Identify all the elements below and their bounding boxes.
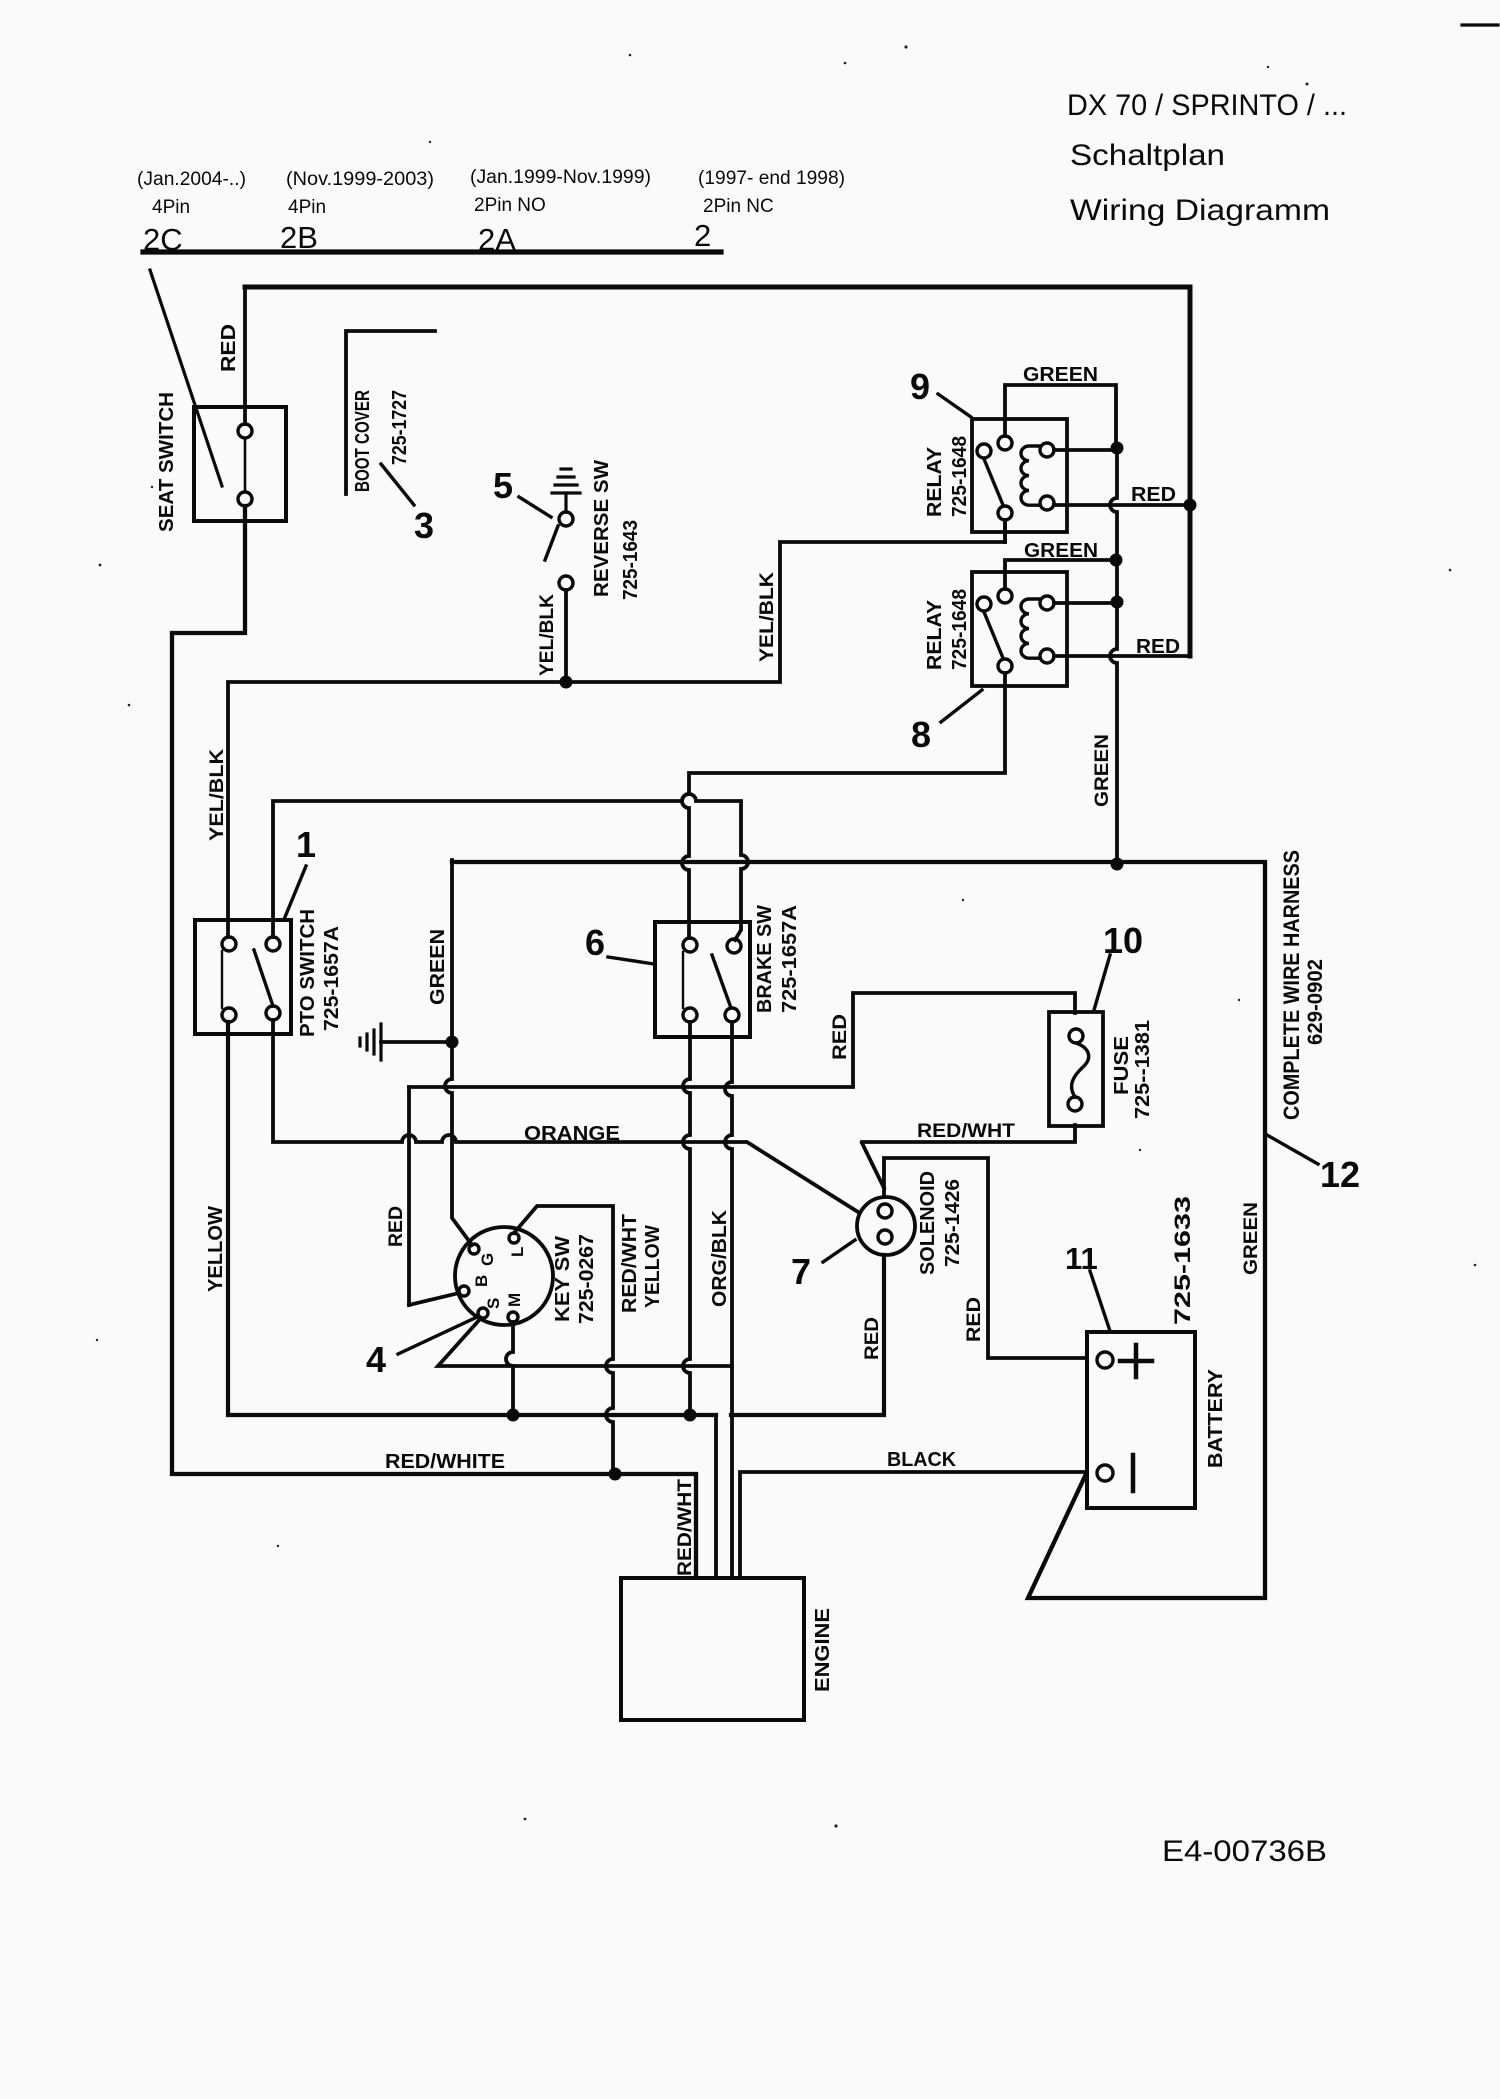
svg-text:B: B [472, 1275, 491, 1287]
svg-text:2A: 2A [478, 222, 516, 257]
svg-text:FUSE: FUSE [1111, 1036, 1133, 1095]
svg-text:725-1727: 725-1727 [389, 390, 411, 465]
svg-text:4: 4 [366, 1339, 386, 1380]
svg-text:GREEN: GREEN [1024, 540, 1098, 562]
svg-text:RED: RED [1136, 636, 1180, 658]
svg-text:Schaltplan: Schaltplan [1070, 139, 1225, 172]
svg-text:4Pin: 4Pin [288, 197, 326, 218]
svg-text:725-0267: 725-0267 [576, 1234, 598, 1324]
svg-text:DX 70 / SPRINTO / ...: DX 70 / SPRINTO / ... [1067, 89, 1347, 122]
svg-text:YEL/BLK: YEL/BLK [757, 572, 778, 662]
svg-text:SEAT SWITCH: SEAT SWITCH [156, 392, 178, 532]
svg-text:10: 10 [1103, 920, 1143, 961]
svg-text:GREEN: GREEN [1023, 364, 1098, 386]
svg-text:L: L [508, 1247, 527, 1257]
svg-text:725-1633: 725-1633 [1170, 1196, 1195, 1325]
svg-text:PTO SWITCH: PTO SWITCH [297, 909, 319, 1037]
svg-text:725-1657A: 725-1657A [779, 905, 801, 1013]
svg-text:8: 8 [911, 714, 931, 755]
svg-text:COMPLETE WIRE HARNESS: COMPLETE WIRE HARNESS [1279, 850, 1304, 1120]
svg-text:G: G [478, 1253, 497, 1266]
svg-text:ORANGE: ORANGE [524, 1123, 620, 1145]
svg-text:9: 9 [910, 366, 930, 407]
svg-text:E4-00736B: E4-00736B [1162, 1835, 1327, 1868]
svg-text:ORG/BLK: ORG/BLK [709, 1209, 731, 1307]
svg-text:RELAY: RELAY [924, 599, 946, 670]
svg-text:629-0902: 629-0902 [1304, 959, 1327, 1045]
svg-text:SOLENOID: SOLENOID [917, 1171, 939, 1275]
svg-text:(Jan.1999-Nov.1999): (Jan.1999-Nov.1999) [470, 167, 651, 188]
svg-text:BLACK: BLACK [887, 1449, 957, 1471]
svg-text:4Pin: 4Pin [152, 197, 190, 218]
svg-text:GREEN: GREEN [1241, 1202, 1262, 1275]
svg-text:2: 2 [694, 218, 711, 253]
svg-text:2B: 2B [280, 220, 318, 255]
svg-text:725-1648: 725-1648 [949, 436, 971, 517]
svg-text:BATTERY: BATTERY [1205, 1368, 1227, 1468]
svg-text:Wiring Diagramm: Wiring Diagramm [1070, 194, 1330, 227]
svg-text:(Nov.1999-2003): (Nov.1999-2003) [286, 169, 434, 190]
svg-text:RED: RED [862, 1317, 883, 1360]
svg-text:RED: RED [218, 324, 240, 372]
svg-text:2C: 2C [143, 222, 183, 257]
svg-text:YELLOW: YELLOW [205, 1206, 227, 1292]
svg-text:(Jan.2004-..): (Jan.2004-..) [137, 169, 246, 190]
svg-text:RED/WHT: RED/WHT [917, 1121, 1015, 1142]
svg-text:RED/WHT: RED/WHT [675, 1479, 696, 1576]
svg-text:BOOT COVER: BOOT COVER [352, 390, 374, 492]
svg-text:725--1381: 725--1381 [1132, 1020, 1154, 1119]
svg-text:11: 11 [1065, 1241, 1098, 1276]
svg-text:RED: RED [1131, 484, 1176, 506]
svg-text:RED: RED [964, 1297, 985, 1342]
svg-text:12: 12 [1320, 1154, 1360, 1195]
svg-text:M: M [505, 1293, 524, 1307]
svg-text:2Pin NC: 2Pin NC [703, 196, 774, 217]
svg-text:3: 3 [414, 505, 434, 546]
svg-text:GREEN: GREEN [427, 929, 449, 1005]
svg-text:RED: RED [830, 1014, 851, 1060]
svg-text:725-1657A: 725-1657A [321, 926, 343, 1031]
svg-text:REVERSE SW: REVERSE SW [591, 460, 613, 597]
svg-text:5: 5 [493, 465, 513, 506]
svg-text:S: S [484, 1298, 503, 1309]
svg-text:RELAY: RELAY [924, 446, 946, 517]
svg-text:6: 6 [585, 922, 605, 963]
svg-text:RED/WHT: RED/WHT [619, 1214, 641, 1313]
svg-text:YEL/BLK: YEL/BLK [207, 749, 228, 841]
svg-text:725-1643: 725-1643 [620, 520, 642, 600]
svg-text:GREEN: GREEN [1092, 734, 1113, 807]
svg-text:1: 1 [296, 824, 316, 865]
svg-text:725-1648: 725-1648 [949, 589, 971, 670]
svg-text:BRAKE SW: BRAKE SW [754, 905, 776, 1013]
svg-text:7: 7 [791, 1251, 811, 1292]
svg-text:RED: RED [386, 1206, 407, 1247]
svg-text:YEL/BLK: YEL/BLK [537, 594, 558, 676]
svg-text:ENGINE: ENGINE [812, 1608, 834, 1692]
svg-text:YELLOW: YELLOW [642, 1225, 664, 1308]
svg-text:(1997- end 1998): (1997- end 1998) [698, 168, 845, 189]
svg-text:RED/WHITE: RED/WHITE [385, 1451, 505, 1473]
svg-text:725-1426: 725-1426 [942, 1179, 964, 1267]
svg-text:2Pin NO: 2Pin NO [474, 195, 546, 216]
svg-text:KEY SW: KEY SW [552, 1236, 574, 1322]
